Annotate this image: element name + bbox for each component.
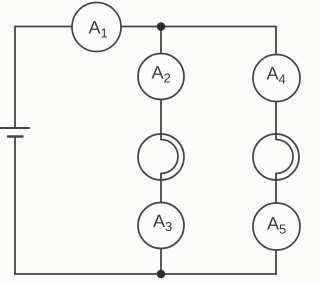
junction node bottom	[157, 270, 166, 279]
ammeter A4 circle	[253, 55, 300, 102]
lamp L2 filament arc	[276, 140, 293, 174]
ammeter A2 circle	[138, 54, 184, 100]
lamp L1 filament arc	[161, 140, 178, 174]
battery cell short plate	[8, 135, 23, 137]
wire lamp L2 to A5	[275, 174, 277, 204]
svg-text:A3: A3	[153, 211, 172, 234]
svg-text:A5: A5	[267, 214, 286, 237]
wire A5 to bottom wire	[275, 250, 277, 274]
wire left vertical upper	[14, 27, 16, 128]
wire A2 to lamp L1	[160, 100, 162, 140]
wire lamp L1 to A3	[160, 174, 162, 203]
wire left vertical lower	[14, 137, 16, 274]
wire bottom	[15, 273, 276, 275]
lamp L2 circle	[253, 134, 299, 180]
wire A3 to bottom junction	[160, 249, 162, 275]
svg-text:A2: A2	[152, 63, 171, 86]
wire right vertical to A4	[275, 27, 277, 55]
svg-text:A4: A4	[267, 64, 286, 87]
ammeter A5 circle	[253, 203, 300, 250]
lamp L1 circle	[138, 134, 184, 180]
wire A4 to lamp L2	[275, 102, 277, 140]
wire top-left from corner to A1	[15, 26, 72, 28]
ammeter A3 circle	[138, 203, 184, 249]
wire junction to A2	[160, 27, 162, 54]
battery cell long plate	[0, 127, 29, 129]
wire top from A1 to junction and right corner	[121, 26, 276, 28]
ammeter A1 circle	[72, 3, 121, 52]
svg-text:A1: A1	[89, 18, 108, 41]
junction node top	[157, 22, 166, 31]
